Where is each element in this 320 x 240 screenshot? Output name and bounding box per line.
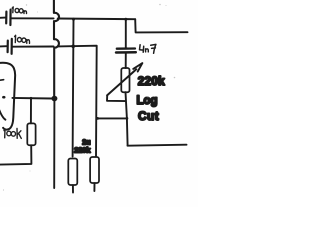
wire bus lower segment xyxy=(53,101,55,188)
node junction W2 right xyxy=(126,117,129,120)
wire W4 from C2 to corner and V2 vertical down xyxy=(58,46,97,157)
wire R1 bottom lead and left run xyxy=(0,145,31,164)
wire lead C3 to pot xyxy=(125,53,127,68)
triode cathode arc xyxy=(0,110,5,120)
resistor R4 body (right bottom) xyxy=(90,157,99,183)
potentiometer wiper tail to bottom lead xyxy=(107,95,126,101)
wire lead to R1 xyxy=(30,98,32,123)
capacitor C3 4n7 xyxy=(116,49,136,53)
potentiometer arrow shaft xyxy=(107,69,136,95)
wire from C1 to bus hop xyxy=(12,17,54,19)
wire bottom right horizontal xyxy=(128,145,187,146)
svg-text:Cut: Cut xyxy=(138,109,159,123)
wire W1 top horizontal xyxy=(58,18,136,21)
triode grid dot xyxy=(2,96,5,99)
capacitor C1 100n (top left) xyxy=(0,10,11,25)
capacitor C2 100n (lower left) xyxy=(0,39,12,54)
wire V3 vertical (to left bottom resistor) xyxy=(72,19,75,156)
node crossing blob at V3/W4 xyxy=(71,45,75,49)
label C2 value 100n xyxy=(15,35,30,43)
resistor R1 100k body xyxy=(27,123,35,145)
resistor R2 body (left bottom) xyxy=(68,159,77,186)
node T junction to 4n7 xyxy=(124,18,127,21)
paper speckles xyxy=(3,4,175,191)
wire pot bottom lead down xyxy=(126,92,128,145)
label C1 value 100n xyxy=(12,7,26,14)
potentiometer R3 220k body xyxy=(121,68,129,92)
svg-text:220k: 220k xyxy=(74,145,91,154)
svg-text:220k: 220k xyxy=(138,74,165,88)
wire anode to node A xyxy=(12,97,51,100)
label C3 value 4n7 xyxy=(140,44,156,53)
triode grid dash xyxy=(0,79,4,82)
wire R4 bottom lead xyxy=(93,183,95,191)
potentiometer arrowhead xyxy=(133,63,142,72)
node T junction to R1 xyxy=(30,97,33,100)
node A junction dot on bus xyxy=(51,96,57,102)
node T junction to V3 xyxy=(72,18,75,21)
wire hop (bus over C2 wire) xyxy=(54,39,59,96)
label R1 value 100k xyxy=(4,128,21,138)
wire from C2 to bus hop xyxy=(13,46,54,48)
triode V1 envelope xyxy=(0,63,15,130)
wire step down at right of W1 xyxy=(135,19,187,32)
wire hop (bus over C1 wire) xyxy=(54,0,59,39)
wire R2 bottom lead xyxy=(72,185,74,192)
wire lead from W1 down to C3 xyxy=(125,19,127,48)
wire W2 horizontal between V2 and pot lead xyxy=(98,117,127,119)
svg-text:Log: Log xyxy=(137,95,158,107)
node junction W2 left xyxy=(96,117,99,120)
